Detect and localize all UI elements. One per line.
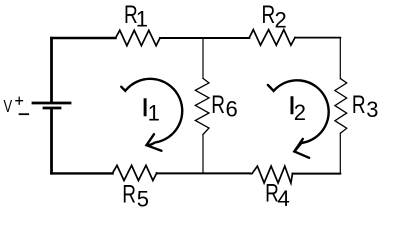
wire middle upper	[202, 38, 204, 78]
svg-text:1: 1	[136, 6, 148, 31]
wire bottom-middle segment	[157, 172, 250, 174]
svg-text:1: 1	[148, 101, 160, 126]
label I2	[289, 92, 306, 125]
arrowhead I2	[294, 139, 309, 158]
svg-text:R: R	[122, 180, 136, 208]
wire right upper	[339, 38, 341, 79]
battery minus sign	[20, 113, 29, 115]
label R6	[211, 91, 238, 122]
label R1	[124, 0, 148, 31]
wire middle lower	[202, 135, 204, 174]
svg-text:3: 3	[366, 97, 378, 122]
svg-text:R: R	[352, 91, 366, 119]
wire top-left segment	[52, 37, 116, 39]
svg-text:2: 2	[275, 8, 287, 33]
resistor R6	[195, 78, 209, 134]
resistor R2	[249, 30, 295, 46]
wire bottom-left segment	[52, 172, 113, 174]
label I1	[142, 94, 160, 125]
wire left upper (to battery +)	[50, 38, 53, 101]
resistor R5	[113, 165, 157, 180]
arrowhead I1	[147, 134, 162, 151]
resistor R1	[116, 30, 161, 45]
label R3	[352, 91, 379, 122]
resistor R4	[250, 166, 293, 183]
label R4	[265, 179, 290, 211]
resistor R3	[335, 79, 347, 133]
svg-text:5: 5	[137, 187, 149, 212]
wire bottom-right segment	[293, 173, 341, 175]
svg-text:2: 2	[294, 100, 306, 125]
mesh current arrow I2	[268, 80, 329, 151]
battery V top plate (long, +)	[33, 102, 70, 105]
svg-text:4: 4	[278, 186, 290, 211]
label R2	[262, 0, 287, 32]
battery V bottom plate (short, -)	[44, 107, 60, 110]
svg-text:R: R	[262, 0, 276, 28]
wire top-right segment	[295, 37, 340, 39]
wire top-middle segment	[160, 37, 249, 39]
svg-text:V: V	[4, 97, 13, 117]
wire right lower	[339, 133, 341, 174]
svg-text:R: R	[211, 91, 225, 119]
wire left lower (from battery -)	[50, 110, 53, 174]
svg-text:6: 6	[226, 97, 238, 122]
mesh current arrow I1	[121, 79, 182, 145]
battery plus sign	[16, 97, 23, 104]
label R5	[122, 180, 149, 212]
